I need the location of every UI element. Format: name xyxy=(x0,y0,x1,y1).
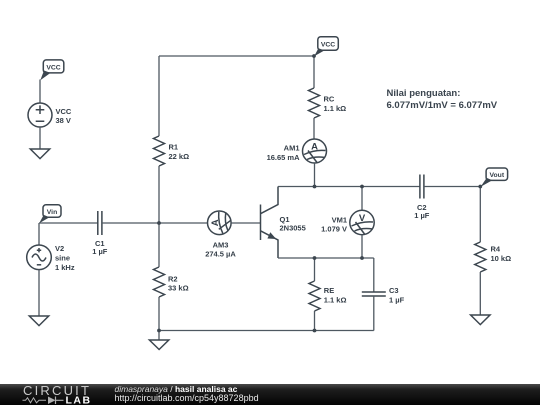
wire collector bus xyxy=(278,186,420,188)
wire emitter bus xyxy=(278,257,374,259)
resistor RE xyxy=(309,281,347,311)
wire VCC node to RC xyxy=(313,56,315,88)
wire R2 bottom lead xyxy=(158,297,160,331)
ammeter AM1 xyxy=(267,139,327,163)
source V2 sine xyxy=(27,244,75,272)
wire R1 branch upper lead xyxy=(158,56,160,136)
svg-text:1.1 kΩ: 1.1 kΩ xyxy=(324,104,347,113)
svg-text:1 µF: 1 µF xyxy=(414,211,430,220)
ground (below V2) xyxy=(29,316,48,326)
svg-text:1 kHz: 1 kHz xyxy=(55,263,75,272)
wire ground stem xyxy=(158,331,160,341)
logo resistor-diode glyph xyxy=(23,398,47,403)
wire C3 bottom xyxy=(373,296,375,331)
svg-text:10 kΩ: 10 kΩ xyxy=(491,254,512,263)
svg-text:1 µF: 1 µF xyxy=(92,247,108,256)
wire RE branch xyxy=(314,258,316,281)
transistor Q1 2N3055 xyxy=(261,187,306,259)
svg-text:Nilai penguatan:: Nilai penguatan: xyxy=(387,88,461,99)
wire R4 to ground xyxy=(479,272,481,315)
svg-text:VCC: VCC xyxy=(46,64,60,71)
wire VCC flag to V1 source xyxy=(39,80,41,104)
svg-text:RC: RC xyxy=(324,95,335,104)
svg-text:Vout: Vout xyxy=(489,172,504,179)
node VM1 top junction xyxy=(360,185,364,189)
node emitter-RE junction xyxy=(313,256,317,260)
svg-text:V2: V2 xyxy=(55,244,64,253)
wire V2 branch xyxy=(38,223,40,245)
wire RE bottom xyxy=(314,311,316,331)
svg-text:AM1: AM1 xyxy=(284,144,300,153)
svg-text:22 kΩ: 22 kΩ xyxy=(169,152,190,161)
node VM1 bottom junction xyxy=(360,256,364,260)
svg-text:1 µF: 1 µF xyxy=(389,295,405,304)
wire R1 bottom lead to base node xyxy=(158,166,160,223)
svg-text:Vin: Vin xyxy=(47,209,57,216)
wire top bus from R1 to RC node xyxy=(159,55,314,57)
ground (bottom bus) xyxy=(149,340,168,350)
node base junction xyxy=(157,221,161,225)
net flag Vin xyxy=(39,205,61,223)
svg-text:LAB: LAB xyxy=(66,394,92,405)
svg-text:R1: R1 xyxy=(169,143,179,152)
wire bottom bus xyxy=(159,330,374,332)
svg-text:VCC: VCC xyxy=(321,41,335,48)
capacitor C3 xyxy=(362,286,405,304)
svg-text:C3: C3 xyxy=(389,286,399,295)
svg-text:1.079 V: 1.079 V xyxy=(321,225,347,234)
svg-text:6.077mV/1mV = 6.077mV: 6.077mV/1mV = 6.077mV xyxy=(387,100,498,111)
footer bar xyxy=(0,383,540,405)
net flag VCC (left supply) xyxy=(40,60,64,80)
voltage source VCC 38V xyxy=(28,103,72,127)
net flag VCC (top) xyxy=(314,37,338,57)
svg-text:38 V: 38 V xyxy=(56,116,71,125)
node bottom bus ground junction xyxy=(157,329,161,333)
node VCC top junction xyxy=(312,54,316,58)
svg-text:VCC: VCC xyxy=(56,107,72,116)
ground (below R4) xyxy=(471,315,490,325)
svg-text:http://circuitlab.com/cp54y887: http://circuitlab.com/cp54y88728pbd xyxy=(115,393,259,403)
svg-text:R4: R4 xyxy=(491,245,501,254)
wire source to ground xyxy=(39,127,41,149)
svg-text:sine: sine xyxy=(55,254,70,263)
ammeter AM3 xyxy=(205,211,236,259)
svg-text:33 kΩ: 33 kΩ xyxy=(168,284,189,293)
wire C1 to base node to AM3 xyxy=(102,222,208,224)
wire RC to AM1 xyxy=(313,118,315,139)
wire C3 branch top xyxy=(373,258,375,292)
capacitor C1 xyxy=(92,211,108,256)
wire Vout node down to R4 xyxy=(479,187,481,243)
wire AM1 to collector node xyxy=(314,163,316,187)
svg-text:2N3055: 2N3055 xyxy=(280,224,306,233)
wire AM3 to Q1 base xyxy=(231,222,260,224)
node Vout junction xyxy=(478,185,482,189)
svg-text:AM3: AM3 xyxy=(213,240,229,249)
voltmeter VM1 xyxy=(321,187,374,259)
svg-text:16.65 mA: 16.65 mA xyxy=(267,153,301,162)
resistor RC xyxy=(309,88,347,118)
resistor R4 xyxy=(475,242,511,272)
resistor R2 xyxy=(154,267,189,297)
svg-text:274.5 µA: 274.5 µA xyxy=(205,250,236,259)
resistor R1 xyxy=(154,136,190,166)
wire base node down to R2 xyxy=(158,223,160,267)
svg-text:R2: R2 xyxy=(168,275,178,284)
wire C2 to Vout node xyxy=(424,186,480,188)
ground (left supply) xyxy=(30,149,49,159)
capacitor C2 xyxy=(414,175,430,221)
node bottom bus RE junction xyxy=(313,329,317,333)
wire Vin node to C1 xyxy=(39,222,98,224)
annotation gain note xyxy=(387,88,498,111)
svg-text:RE: RE xyxy=(324,286,334,295)
node collector-AM1 junction xyxy=(313,185,317,189)
wire V2 to ground xyxy=(38,270,40,316)
net flag Vout xyxy=(481,168,508,187)
svg-text:1.1 kΩ: 1.1 kΩ xyxy=(324,296,347,305)
svg-text:VM1: VM1 xyxy=(332,216,347,225)
